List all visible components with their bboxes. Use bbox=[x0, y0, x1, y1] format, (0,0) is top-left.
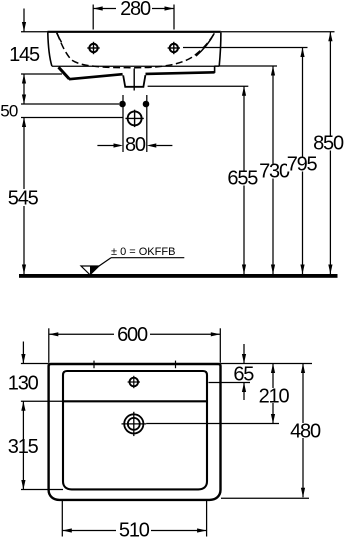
plan view outer outline bbox=[49, 364, 221, 500]
washbasin front view rim top line bbox=[48, 31, 221, 33]
dimension 65 arrow top bbox=[242, 344, 246, 364]
dimension 510 line and arrows bbox=[62, 528, 206, 532]
plan view inner rim outline bbox=[63, 371, 207, 489]
washbasin front view left edge bbox=[48, 33, 52, 67]
dimension 280 extension lines bbox=[93, 5, 174, 30]
dimension 80 arrows outside bbox=[97, 143, 172, 147]
dimension 850 vertical line bbox=[328, 32, 332, 274]
svg-text:600: 600 bbox=[117, 324, 148, 346]
height extension line 795 (fixing holes) bbox=[183, 47, 308, 49]
svg-text:655: 655 bbox=[227, 167, 258, 189]
dimension 50 extension line top bbox=[21, 103, 119, 105]
datum label OKFFB bbox=[111, 246, 175, 258]
dimension 795 label bbox=[287, 153, 318, 175]
plan view fixing tick left bbox=[93, 361, 95, 369]
svg-text:80: 80 bbox=[125, 134, 146, 156]
dimension 50 extension line bottom bbox=[21, 117, 123, 119]
svg-text:210: 210 bbox=[259, 385, 290, 407]
apron left tip diagonal bbox=[59, 67, 70, 79]
tap hole extension line bbox=[209, 382, 251, 384]
dimension 130 extension line bottom bbox=[21, 400, 63, 402]
dimension 80 extension lines bbox=[123, 95, 147, 152]
datum triangle symbol bbox=[81, 258, 184, 275]
dimension 65 label bbox=[233, 364, 254, 386]
svg-text:730: 730 bbox=[259, 160, 290, 182]
plan bottom edge extension line right bbox=[221, 497, 309, 499]
svg-text:± 0 = OKFFB: ± 0 = OKFFB bbox=[111, 246, 175, 258]
apron bottom edge left part bbox=[69, 74, 123, 79]
dimension 315 extension line bottom bbox=[21, 489, 63, 491]
svg-text:280: 280 bbox=[120, 0, 151, 20]
dimension 480 label bbox=[290, 420, 321, 442]
dimension 145 extension line top bbox=[21, 31, 48, 33]
dimension 130 label bbox=[8, 372, 39, 394]
svg-text:545: 545 bbox=[8, 187, 39, 209]
dimension 510 label bbox=[119, 519, 150, 539]
dimension 795 vertical line bbox=[300, 48, 304, 275]
plan top edge extension line right bbox=[221, 363, 313, 365]
height extension line 730 (basin bottom) bbox=[214, 65, 277, 67]
dimension 600 line and arrows bbox=[49, 332, 221, 336]
washbasin front view right edge bbox=[219, 33, 221, 67]
dimension 315 label bbox=[8, 436, 39, 458]
dimension 80 label bbox=[125, 134, 146, 156]
dimension 145/50 double arrow between bbox=[22, 74, 26, 104]
dimension 145 arrow top bbox=[22, 9, 26, 32]
washbasin bowl inner curve (hidden, dashed) bbox=[57, 33, 214, 68]
drain extension line right bbox=[146, 423, 279, 425]
dimension 545 line with arrows bbox=[22, 118, 26, 275]
svg-text:510: 510 bbox=[119, 519, 150, 539]
dimension 730 label bbox=[259, 160, 290, 182]
dimension 480 line with arrows bbox=[301, 364, 305, 498]
height extension line 850 (rim) bbox=[221, 31, 335, 33]
dimension 145 extension line bottom bbox=[21, 73, 62, 75]
dimension 280 line and arrows bbox=[93, 6, 174, 10]
svg-text:145: 145 bbox=[9, 44, 40, 66]
dimension 655 label bbox=[227, 167, 258, 189]
dimension 730 vertical line bbox=[271, 66, 275, 274]
plan view bowl divider line bbox=[64, 400, 207, 402]
svg-text:130: 130 bbox=[8, 372, 39, 394]
dimension 545 label bbox=[8, 187, 39, 209]
dimension 600 label bbox=[117, 324, 148, 346]
fixing hole left bbox=[87, 42, 99, 54]
dimension 65 arrow bottom bbox=[242, 383, 246, 401]
dimension 315 line with arrows bbox=[21, 401, 25, 489]
supply connection dot left bbox=[119, 101, 126, 108]
dimension 280 label bbox=[120, 0, 151, 20]
dimension 130 extension line top bbox=[21, 363, 49, 365]
dimension 655 vertical line bbox=[242, 86, 246, 274]
floor line bbox=[19, 274, 338, 278]
dimension 850 label bbox=[313, 132, 344, 154]
plan view fixing tick right bbox=[175, 361, 177, 369]
drain fitting box under basin bbox=[123, 75, 145, 87]
apron right edge bbox=[214, 66, 216, 73]
fixing hole right bbox=[168, 42, 180, 54]
supply connection dot right bbox=[143, 101, 150, 108]
dimension 600 extension lines bbox=[49, 328, 221, 363]
dimension 145 label bbox=[9, 44, 40, 66]
svg-text:50: 50 bbox=[0, 102, 18, 121]
height extension line 655 (fitting bottom) bbox=[148, 85, 249, 87]
svg-text:795: 795 bbox=[287, 153, 318, 175]
dimension 210 line with arrows bbox=[271, 364, 275, 424]
dimension 50 label bbox=[0, 102, 18, 121]
dimension 510 extension lines bbox=[62, 500, 206, 537]
dimension 210 label bbox=[259, 385, 290, 407]
plan view drain double circle bbox=[122, 412, 147, 436]
trap crosshair circle bbox=[125, 110, 143, 127]
svg-text:480: 480 bbox=[290, 420, 321, 442]
plan view tap hole bbox=[128, 376, 140, 388]
washbasin bowl inner curve visible solid part right bbox=[196, 33, 214, 56]
drain centerline bbox=[133, 69, 135, 91]
dimension 130 arrow top bbox=[21, 342, 25, 364]
washbasin front view bottom edge bbox=[52, 65, 219, 67]
washbasin bowl inner curve solid start left bbox=[57, 33, 62, 43]
svg-text:315: 315 bbox=[8, 436, 39, 458]
svg-text:850: 850 bbox=[313, 132, 344, 154]
apron bottom edge right part bbox=[146, 72, 215, 74]
